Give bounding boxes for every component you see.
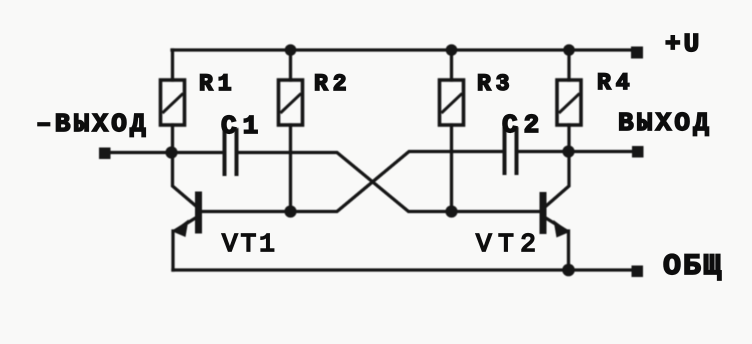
svg-text:+U: +U bbox=[665, 29, 702, 59]
wire C2 to VT1 base cross-coupling bbox=[202, 152, 503, 212]
terminal common bbox=[632, 266, 644, 278]
svg-text:ОБЩ: ОБЩ bbox=[663, 250, 723, 284]
resistor R2 bbox=[279, 50, 303, 212]
svg-text:R3: R3 bbox=[477, 71, 515, 97]
wire bottom common rail bbox=[173, 268, 632, 271]
node R4 top rail junction bbox=[563, 44, 575, 56]
capacitor C1 bbox=[225, 130, 237, 174]
svg-text:VT1: VT1 bbox=[222, 229, 278, 259]
svg-text:R4: R4 bbox=[597, 70, 635, 96]
resistor R1 bbox=[161, 50, 185, 152]
wire left output line bbox=[111, 151, 223, 154]
node R3 top rail junction bbox=[446, 44, 458, 56]
wire +U top rail bbox=[172, 48, 632, 51]
svg-text:VT2: VT2 bbox=[476, 229, 542, 259]
node R2 top rail junction bbox=[285, 44, 297, 56]
node R3 base junction bbox=[445, 205, 457, 217]
node VT2 emitter junction bbox=[562, 264, 575, 277]
terminal output bbox=[632, 146, 644, 158]
transistor VT2 bbox=[540, 152, 570, 271]
resistor R4 bbox=[557, 50, 581, 152]
terminal -output bbox=[99, 148, 111, 160]
transistor VT1 bbox=[173, 152, 203, 270]
svg-text:C2: C2 bbox=[502, 110, 545, 140]
terminal +U bbox=[631, 47, 643, 59]
wire C1 to VT2 base cross-coupling bbox=[238, 153, 540, 212]
resistor R3 bbox=[440, 50, 464, 212]
svg-text:ВЫХОД: ВЫХОД bbox=[618, 108, 712, 138]
node R1 collector junction bbox=[165, 146, 177, 158]
svg-text:–ВЫХОД: –ВЫХОД bbox=[36, 109, 149, 139]
node R4 collector junction bbox=[562, 145, 574, 157]
svg-text:R2: R2 bbox=[314, 71, 352, 97]
wire right output line bbox=[518, 150, 632, 153]
svg-text:R1: R1 bbox=[199, 71, 237, 97]
svg-text:C1: C1 bbox=[221, 111, 264, 141]
capacitor C2 bbox=[505, 129, 517, 173]
node R2 base junction bbox=[284, 205, 296, 217]
